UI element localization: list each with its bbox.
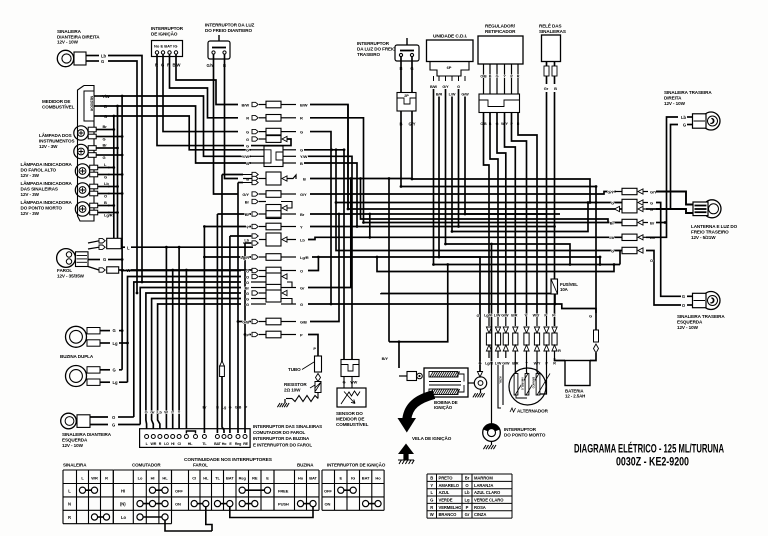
wire Lb from right front signal bbox=[108, 56, 143, 284]
wire G from right front signal bbox=[108, 61, 138, 294]
tube connector TUBO bbox=[288, 356, 322, 372]
svg-text:VERMELHO: VERMELHO bbox=[439, 505, 463, 510]
regulator rectifier REGULADOR/RETIFICADOR bbox=[478, 24, 523, 127]
svg-text:LANTERNA E LUZ DO: LANTERNA E LUZ DO bbox=[691, 224, 738, 229]
svg-text:W/Y: W/Y bbox=[533, 314, 540, 318]
svg-text:CINZA: CINZA bbox=[474, 512, 486, 517]
svg-text:ALTERNADOR: ALTERNADOR bbox=[517, 409, 549, 414]
wire colour legend table bbox=[427, 474, 512, 518]
wires into right half of strip bbox=[203, 175, 251, 434]
wire B/W ignition to connector bbox=[176, 54, 238, 105]
svg-text:O: O bbox=[145, 411, 148, 415]
svg-text:INSTRUMENTOS: INSTRUMENTOS bbox=[39, 138, 75, 143]
svg-text:HI: HI bbox=[171, 442, 174, 446]
connector row O3 bbox=[246, 280, 292, 288]
svg-text:LÂMPADA INDICADORA: LÂMPADA INDICADORA bbox=[21, 199, 73, 205]
fuel sensor connector 2P bbox=[341, 360, 359, 389]
svg-text:BAT: BAT bbox=[214, 442, 222, 446]
connector row Br hook bbox=[245, 199, 292, 218]
wire Lg horn1 bbox=[119, 342, 128, 344]
strip wire labels above bbox=[145, 406, 248, 415]
svg-text:INTERRUPTOR: INTERRUPTOR bbox=[357, 41, 390, 46]
svg-text:Br: Br bbox=[245, 212, 250, 217]
connector row G3 bbox=[246, 143, 249, 148]
instrument lamp 3 bbox=[75, 162, 109, 179]
svg-text:B/W: B/W bbox=[300, 102, 308, 107]
fuse FUSIVEL 10A bbox=[551, 279, 578, 294]
svg-text:G: G bbox=[103, 137, 106, 142]
svg-text:R: R bbox=[517, 75, 520, 79]
left vertical wire bundle bbox=[100, 95, 251, 272]
horn junction dots bbox=[121, 329, 129, 344]
svg-text:G: G bbox=[300, 302, 303, 307]
wire Y right bbox=[310, 226, 555, 228]
svg-text:G: G bbox=[246, 129, 249, 134]
svg-text:RELÉ DAS: RELÉ DAS bbox=[539, 22, 561, 29]
svg-text:Br: Br bbox=[245, 199, 250, 204]
svg-text:LO: LO bbox=[164, 442, 169, 446]
svg-text:BRANCO: BRANCO bbox=[532, 377, 536, 388]
svg-text:6P: 6P bbox=[447, 65, 452, 70]
svg-text:COMUTADOR: COMUTADOR bbox=[132, 463, 161, 468]
svg-text:E: E bbox=[340, 476, 343, 481]
svg-text:BUZINA: BUZINA bbox=[297, 463, 314, 468]
headlight wire G bbox=[88, 257, 122, 262]
svg-text:G: G bbox=[101, 59, 104, 64]
svg-text:Gr: Gr bbox=[544, 86, 549, 91]
staircase wires from connector rows to left components bbox=[122, 271, 241, 434]
svg-text:G/W: G/W bbox=[501, 314, 509, 318]
fuel gauge MEDIDOR DE COMBUSTIVEL bbox=[42, 86, 110, 222]
svg-text:COMBUSTÍVEL: COMBUSTÍVEL bbox=[336, 420, 369, 427]
svg-text:CI: CI bbox=[177, 442, 180, 446]
wire B triple hook bbox=[287, 175, 296, 179]
svg-text:BAT: BAT bbox=[362, 476, 370, 481]
svg-text:O: O bbox=[246, 268, 249, 273]
svg-text:G: G bbox=[430, 497, 433, 502]
ignition switch INTERRUPTOR DE IGNICAO bbox=[151, 26, 184, 68]
svg-text:R: R bbox=[558, 348, 561, 353]
battery BATERIA 12-2.5AH bbox=[565, 361, 590, 399]
svg-text:DIREITA: DIREITA bbox=[664, 95, 682, 100]
svg-text:FAROL: FAROL bbox=[193, 463, 208, 468]
wire B right bbox=[310, 178, 412, 180]
svg-text:Lb: Lb bbox=[104, 181, 109, 186]
svg-text:B/W: B/W bbox=[242, 102, 250, 107]
neutral switch ground bbox=[491, 441, 493, 445]
svg-text:HI: HI bbox=[121, 488, 125, 493]
svg-text:UNIDADE C.D.I.: UNIDADE C.D.I. bbox=[433, 34, 467, 40]
svg-text:B: B bbox=[489, 75, 492, 79]
instrument lamp 4 bbox=[75, 181, 109, 198]
svg-text:G: G bbox=[589, 314, 592, 319]
svg-text:G: G bbox=[104, 175, 107, 180]
svg-text:G/Y: G/Y bbox=[242, 192, 249, 197]
svg-text:Lb: Lb bbox=[244, 237, 249, 242]
alternator wire labels bbox=[0, 0, 1, 1]
wire G rear left signal bbox=[656, 203, 681, 297]
svg-text:Lg/R: Lg/R bbox=[300, 255, 309, 260]
spark gap arrow up bbox=[398, 444, 414, 465]
continuity table FAROL section bbox=[172, 470, 275, 510]
svg-text:G/B: G/B bbox=[242, 319, 249, 324]
svg-text:12V - 3W: 12V - 3W bbox=[39, 144, 58, 149]
svg-text:INTERRUPTOR: INTERRUPTOR bbox=[151, 26, 184, 31]
wire G2 hook return bbox=[251, 139, 291, 146]
svg-text:B: B bbox=[554, 86, 557, 91]
svg-text:DO PONTO MORTO: DO PONTO MORTO bbox=[504, 432, 546, 437]
rear left turn signal SINALEIRA TRASEIRA ESQUERDA bbox=[677, 292, 725, 330]
wire G ignition to connector bbox=[163, 54, 238, 132]
svg-text:DE IGNIÇÃO: DE IGNIÇÃO bbox=[151, 30, 178, 36]
svg-text:12V - 3W: 12V - 3W bbox=[21, 192, 40, 197]
svg-text:Lb: Lb bbox=[609, 235, 614, 240]
connector row Br2 bbox=[245, 211, 305, 218]
handlebar switch connector strip bbox=[140, 429, 251, 448]
front left turn signal SINALEIRA DIANTEIRA ESQUERDA bbox=[61, 413, 116, 448]
svg-text:DA LUZ DO FREIO: DA LUZ DO FREIO bbox=[357, 46, 396, 51]
svg-text:WR: WR bbox=[151, 442, 157, 446]
svg-text:12V - 10W: 12V - 10W bbox=[57, 40, 79, 45]
svg-text:AZUL: AZUL bbox=[439, 490, 450, 495]
svg-text:AMARELO: AMARELO bbox=[439, 483, 460, 488]
svg-text:TUBO: TUBO bbox=[288, 367, 301, 372]
connector row G4 bbox=[246, 290, 287, 302]
connector row O2 bbox=[246, 273, 287, 285]
svg-text:12 - 2.5AH: 12 - 2.5AH bbox=[565, 394, 585, 399]
instrument lamps LAMPADA DOS INSTRUMENTOS bbox=[39, 132, 75, 149]
svg-text:B: B bbox=[300, 161, 303, 166]
svg-text:DO PONTO MORTO: DO PONTO MORTO bbox=[21, 205, 63, 210]
svg-text:TL: TL bbox=[215, 476, 220, 481]
svg-text:Lg: Lg bbox=[113, 341, 118, 346]
svg-text:HL: HL bbox=[162, 476, 168, 481]
svg-text:E: E bbox=[266, 476, 269, 481]
svg-text:L/W: L/W bbox=[449, 93, 456, 97]
svg-text:INTERRUPTOR DA BUZINA: INTERRUPTOR DA BUZINA bbox=[253, 436, 310, 441]
svg-text:Lb: Lb bbox=[101, 53, 106, 58]
instrument lamp 2 bbox=[74, 143, 108, 160]
svg-text:G: G bbox=[496, 75, 499, 79]
connector row Gr bbox=[245, 284, 305, 290]
label horns BUZINA DUPLA bbox=[60, 354, 94, 359]
svg-text:SINALEIRA TRASEIRA: SINALEIRA TRASEIRA bbox=[677, 314, 725, 319]
wire Br row right stub bbox=[656, 221, 666, 224]
tail brake light LANTERNA E LUZ DO FREIO TRASEIRO bbox=[691, 200, 738, 240]
connector row G1 bbox=[246, 128, 303, 135]
wire GY front brake bbox=[214, 54, 239, 194]
wire B block to mesh bbox=[304, 163, 358, 228]
svg-text:INTERRUPTOR DE IGNIÇÃO: INTERRUPTOR DE IGNIÇÃO bbox=[327, 462, 386, 468]
wire Lg horn2 bbox=[119, 381, 128, 383]
connector row G2 bbox=[246, 136, 287, 143]
svg-text:O: O bbox=[650, 258, 653, 263]
svg-text:O: O bbox=[300, 268, 303, 273]
svg-text:AMARELO: AMARELO bbox=[521, 377, 525, 390]
svg-text:2Ω 10W: 2Ω 10W bbox=[284, 387, 301, 392]
wire R row to mesh bbox=[310, 118, 622, 223]
rear brake light switch INTERRUPTOR DA LUZ DO FREIO TRASEIRO bbox=[357, 38, 419, 127]
svg-text:COMBUSTÍVEL: COMBUSTÍVEL bbox=[42, 102, 75, 109]
svg-text:BAT: BAT bbox=[226, 476, 234, 481]
instrument lamp 1 bbox=[74, 124, 108, 141]
headlight connector W bbox=[88, 267, 131, 274]
svg-text:P: P bbox=[246, 332, 249, 337]
indicator label neutral bbox=[21, 199, 73, 216]
svg-text:SENSOR DO: SENSOR DO bbox=[336, 411, 363, 416]
horn BUZINA 2 bbox=[66, 366, 118, 387]
svg-text:G/W: G/W bbox=[461, 93, 469, 97]
relay wires down bbox=[547, 76, 555, 315]
svg-text:Gr: Gr bbox=[300, 285, 305, 290]
svg-text:B: B bbox=[303, 176, 306, 181]
svg-text:Ho: Ho bbox=[375, 476, 381, 481]
svg-text:Y: Y bbox=[430, 483, 433, 488]
svg-text:LÂMPADA INDICADORA: LÂMPADA INDICADORA bbox=[21, 180, 73, 186]
svg-text:SINALEIRA TRASEIRA: SINALEIRA TRASEIRA bbox=[664, 90, 712, 95]
svg-text:G: G bbox=[246, 296, 249, 301]
svg-text:R: R bbox=[300, 116, 303, 121]
wire G horn1 bbox=[119, 330, 122, 332]
svg-text:SINALEIRA: SINALEIRA bbox=[63, 463, 87, 468]
svg-text:ESQUERDA: ESQUERDA bbox=[677, 319, 703, 324]
svg-text:OFF: OFF bbox=[324, 488, 332, 493]
wire G block to sensor bbox=[304, 150, 344, 360]
wire B front brake bbox=[225, 54, 239, 179]
svg-text:DIAGRAMA ELÉTRICO - 125 ML/TUR: DIAGRAMA ELÉTRICO - 125 ML/TURUNA bbox=[574, 441, 724, 456]
wire G6 right bbox=[308, 303, 596, 313]
svg-text:ON: ON bbox=[175, 502, 181, 507]
right connector row G y250 bbox=[611, 247, 643, 253]
svg-text:Y/W: Y/W bbox=[300, 154, 308, 159]
svg-text:P: P bbox=[466, 505, 469, 510]
svg-text:Y/W: Y/W bbox=[242, 154, 250, 159]
connector row O1 bbox=[246, 267, 303, 274]
svg-text:Br: Br bbox=[650, 220, 655, 225]
svg-text:Y: Y bbox=[300, 224, 303, 229]
svg-text:(N): (N) bbox=[120, 502, 126, 507]
wire Lb rear right signal bbox=[646, 117, 678, 237]
ignition continuity table INTERRUPTOR DE IGNICAO bbox=[322, 462, 386, 511]
svg-text:12V - 35/35W: 12V - 35/35W bbox=[57, 273, 85, 278]
svg-text:B/W: B/W bbox=[430, 85, 438, 89]
svg-text:R: R bbox=[105, 476, 108, 481]
svg-text:12V - 10W: 12V - 10W bbox=[62, 443, 84, 448]
svg-text:G: G bbox=[300, 129, 303, 134]
svg-text:SINALEIRA DIANTEIRA: SINALEIRA DIANTEIRA bbox=[62, 432, 112, 437]
svg-text:G: G bbox=[246, 148, 249, 153]
alternator lead wires bbox=[498, 365, 503, 408]
svg-text:G: G bbox=[112, 422, 115, 427]
wire GB right bbox=[310, 213, 340, 322]
svg-text:INTERRUPTOR: INTERRUPTOR bbox=[504, 427, 537, 432]
indicator label turn signals bbox=[21, 180, 73, 197]
svg-text:Lo: Lo bbox=[121, 515, 126, 520]
svg-text:Lb: Lb bbox=[465, 490, 470, 495]
svg-text:Lo: Lo bbox=[138, 476, 143, 481]
wire L headlight bbox=[131, 246, 253, 248]
svg-text:G: G bbox=[113, 367, 116, 372]
svg-text:IGNIÇÃO: IGNIÇÃO bbox=[434, 405, 453, 410]
svg-text:P: P bbox=[300, 332, 303, 337]
wire Br long bbox=[310, 213, 547, 215]
indicator label high beam bbox=[21, 161, 73, 178]
svg-text:IG: IG bbox=[351, 476, 355, 481]
svg-text:G: G bbox=[611, 200, 614, 205]
svg-text:G: G bbox=[246, 137, 249, 142]
high tension cable to spark plug bbox=[398, 395, 435, 433]
wire LgR right bbox=[312, 257, 480, 374]
svg-text:O: O bbox=[246, 280, 249, 285]
svg-text:G: G bbox=[246, 302, 249, 307]
resistor ground bbox=[284, 399, 286, 403]
svg-text:INTERRUPTOR DAS SINALEIRAS: INTERRUPTOR DAS SINALEIRAS bbox=[253, 424, 322, 429]
svg-text:Gr: Gr bbox=[150, 411, 155, 415]
svg-text:CI: CI bbox=[192, 476, 196, 481]
svg-text:INTERRUPTOR DA LUZ: INTERRUPTOR DA LUZ bbox=[205, 23, 255, 28]
svg-text:RESISTOR: RESISTOR bbox=[284, 382, 307, 387]
table linking traces bbox=[165, 507, 313, 531]
svg-text:Br: Br bbox=[245, 285, 250, 290]
front brake light switch INTERRUPTOR DA LUZ DO FREIO DIANTEIRO bbox=[205, 23, 255, 69]
wire W headlight bbox=[131, 269, 253, 271]
connector row G6 bbox=[246, 299, 303, 307]
inline connector on Lg wire bbox=[220, 361, 225, 377]
svg-text:Lb: Lb bbox=[300, 237, 305, 242]
diagram title bbox=[574, 441, 724, 469]
connector row G5 bbox=[246, 296, 266, 301]
svg-text:AZUL CLARO: AZUL CLARO bbox=[474, 490, 501, 495]
wire G left signal bbox=[118, 424, 140, 426]
svg-text:G: G bbox=[103, 155, 106, 160]
svg-text:No E BAT IG: No E BAT IG bbox=[154, 44, 177, 49]
svg-text:G/B: G/B bbox=[300, 319, 307, 324]
connector row B triple bbox=[243, 172, 287, 185]
svg-text:FREE: FREE bbox=[278, 488, 289, 493]
svg-text:FREIO TRASEIRO: FREIO TRASEIRO bbox=[691, 229, 729, 234]
svg-text:G/Y: G/Y bbox=[442, 85, 449, 89]
svg-text:VERDE: VERDE bbox=[439, 497, 453, 502]
svg-text:12V - 5/21W: 12V - 5/21W bbox=[691, 235, 716, 240]
condenser circle on G wire bbox=[468, 257, 487, 389]
svg-text:L/W: L/W bbox=[494, 314, 501, 318]
instrument lamp 5 bbox=[75, 200, 112, 217]
svg-text:L/W: L/W bbox=[495, 362, 502, 366]
wire YW block to sensor bbox=[308, 156, 352, 359]
svg-text:TRASEIRO: TRASEIRO bbox=[357, 52, 380, 57]
svg-text:Br: Br bbox=[103, 124, 108, 129]
spark plug label VELA DE IGNICAO bbox=[412, 435, 452, 441]
wire G rear right signal bbox=[646, 125, 678, 210]
connector row GY bbox=[242, 191, 307, 198]
regulator wires down to pills bbox=[484, 113, 538, 316]
wire G horn2 bbox=[119, 369, 122, 371]
svg-text:SINALEIRA: SINALEIRA bbox=[57, 29, 82, 34]
svg-text:Ho: Ho bbox=[298, 476, 304, 481]
condenser ground bbox=[480, 389, 482, 393]
table group labels bbox=[63, 463, 314, 468]
svg-text:B: B bbox=[104, 200, 107, 205]
svg-text:G/W: G/W bbox=[502, 362, 510, 366]
wire GY long bbox=[310, 192, 616, 195]
right connector row G/Y y191 bbox=[607, 188, 657, 194]
CDI wires down bbox=[434, 89, 466, 265]
svg-text:HI: HI bbox=[151, 476, 155, 481]
svg-text:Lg/R: Lg/R bbox=[484, 314, 492, 318]
svg-text:COMUTADOR DO FAROL: COMUTADOR DO FAROL bbox=[253, 430, 305, 435]
svg-text:B: B bbox=[430, 475, 433, 480]
svg-text:WR: WR bbox=[91, 476, 98, 481]
svg-text:LÂMPADA DOS: LÂMPADA DOS bbox=[39, 132, 72, 138]
svg-text:12V - 3W: 12V - 3W bbox=[21, 173, 40, 178]
svg-text:Gr: Gr bbox=[465, 512, 470, 517]
front right turn signal lamp SINALEIRA DIANTEIRA DIREITA bbox=[57, 29, 106, 67]
svg-text:G/Y: G/Y bbox=[300, 192, 307, 197]
ignition coil BOBINA DE IGNICAO bbox=[399, 368, 468, 410]
svg-text:LARANJA: LARANJA bbox=[474, 483, 493, 488]
wire G1 to mesh bbox=[310, 132, 332, 306]
svg-text:O: O bbox=[104, 194, 107, 199]
fuel sensor SENSOR DO MEDIDOR DE COMBUSTIVEL bbox=[336, 388, 369, 427]
svg-text:P: P bbox=[313, 346, 316, 351]
connector row Y bbox=[246, 223, 303, 230]
fuse wires bbox=[554, 294, 556, 326]
wire B rear brake bbox=[400, 111, 402, 187]
connector row B/W bbox=[242, 101, 308, 108]
svg-text:PRETO: PRETO bbox=[439, 475, 454, 480]
connector row P bbox=[246, 331, 303, 338]
svg-text:G/Y: G/Y bbox=[607, 189, 614, 194]
inline pill connectors row bbox=[478, 314, 557, 366]
wire BY to coil bbox=[382, 177, 450, 368]
resistor zigzag to ground bbox=[286, 393, 318, 402]
connector block G YW B bbox=[242, 146, 308, 167]
svg-text:G: G bbox=[103, 257, 106, 262]
svg-text:Y: Y bbox=[246, 224, 249, 229]
svg-text:E INTERRUPTOR DO FAROL: E INTERRUPTOR DO FAROL bbox=[253, 442, 312, 447]
svg-text:G: G bbox=[682, 294, 685, 299]
continuity table SINALEIRA section bbox=[63, 470, 113, 524]
svg-text:DO FAROL ALTO: DO FAROL ALTO bbox=[21, 167, 57, 172]
wire B/W to mesh bbox=[310, 105, 622, 210]
title CONTINUIDADE NOS INTERRUPTORES bbox=[184, 457, 273, 463]
svg-text:B/R: B/R bbox=[511, 314, 517, 318]
svg-text:G: G bbox=[611, 248, 614, 253]
CDI unit UNIDADE C.D.I. bbox=[427, 34, 474, 97]
svg-text:DIANTEIRA DIREITA: DIANTEIRA DIREITA bbox=[57, 34, 100, 39]
svg-text:12V - 10W: 12V - 10W bbox=[677, 325, 699, 330]
svg-text:G: G bbox=[457, 85, 460, 89]
switch description text block bbox=[253, 424, 322, 447]
svg-text:LÂMPADA INDICADORA: LÂMPADA INDICADORA bbox=[21, 161, 73, 167]
svg-text:12V - 10W: 12V - 10W bbox=[664, 101, 686, 106]
right connector row Br y222 bbox=[610, 219, 655, 225]
wire R2 ignition to connector bbox=[157, 54, 244, 146]
right connector double row G G bbox=[611, 199, 653, 213]
wire Lb long bbox=[308, 237, 622, 239]
svg-text:G: G bbox=[246, 291, 249, 296]
svg-text:G: G bbox=[300, 148, 303, 153]
svg-text:HL: HL bbox=[203, 476, 209, 481]
svg-text:Lb: Lb bbox=[157, 411, 162, 415]
svg-text:B/R: B/R bbox=[436, 93, 443, 97]
alternator ALTERNADOR bbox=[509, 358, 550, 414]
svg-text:G: G bbox=[476, 313, 479, 318]
wire P to resistor bbox=[308, 335, 318, 357]
right connector row Lb y237 bbox=[609, 234, 655, 240]
svg-text:RETIFICADOR: RETIFICADOR bbox=[485, 29, 516, 34]
svg-text:Lg/R: Lg/R bbox=[241, 255, 250, 260]
